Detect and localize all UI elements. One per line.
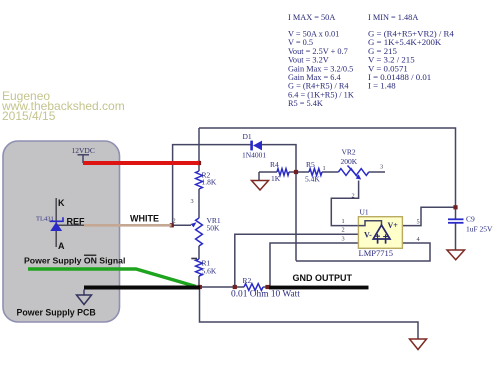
- wire op-amp pin 5 to C9: [403, 207, 456, 225]
- svg-text:A: A: [58, 241, 65, 251]
- svg-text:1uF 25V: 1uF 25V: [466, 225, 493, 234]
- resistor R4 1K: [277, 169, 289, 176]
- svg-text:K: K: [58, 198, 65, 208]
- svg-text:U1: U1: [360, 208, 369, 217]
- wire bottom rail: [199, 286, 244, 288]
- svg-text:Power Supply ON Signal: Power Supply ON Signal: [24, 256, 125, 266]
- svg-text:1K: 1K: [271, 174, 281, 183]
- op-amp U1 LMP7715: [358, 217, 402, 249]
- svg-text:REF: REF: [67, 217, 86, 227]
- svg-text:R2: R2: [243, 276, 252, 285]
- tan WHITE wire: [56, 224, 84, 226]
- wire left vertical trunk: [198, 128, 200, 171]
- svg-text:1: 1: [323, 165, 326, 172]
- pin labels: [173, 164, 421, 244]
- potentiometer VR2 200K: [338, 169, 368, 176]
- svg-text:I MAX = 50A: I MAX = 50A: [288, 13, 335, 22]
- label ON overline: [84, 254, 96, 256]
- svg-text:0.01 Ohm 10 Watt: 0.01 Ohm 10 Watt: [231, 290, 300, 300]
- wire D1 branch: [173, 145, 251, 226]
- svg-text:12VDC: 12VDC: [72, 146, 95, 155]
- resistor R1 5.6K: [196, 259, 203, 276]
- wire VR2 wiper to op-amp pin 1: [331, 181, 358, 226]
- junction node shunt left: [198, 285, 202, 289]
- svg-text:2: 2: [352, 193, 355, 200]
- potentiometer VR1 50K: [196, 218, 203, 246]
- svg-text:3: 3: [191, 198, 194, 205]
- svg-text:I MIN = 1.48A: I MIN = 1.48A: [368, 13, 418, 22]
- svg-text:5.4K: 5.4K: [305, 175, 320, 184]
- wire C9 lower stub: [455, 223, 457, 251]
- svg-text:G = (R4+R5) / R4: G = (R4+R5) / R4: [288, 82, 349, 91]
- wire bottom ground run: [200, 287, 419, 339]
- capacitor C9 1uF 25V: [448, 218, 464, 220]
- svg-text:WHITE: WHITE: [130, 214, 159, 224]
- ground at R4: [252, 181, 269, 191]
- svg-text:R5 = 5.4K: R5 = 5.4K: [288, 99, 323, 108]
- svg-text:1: 1: [342, 218, 345, 225]
- watermark text Eugeneo: [1, 89, 125, 123]
- junction node V+ supply: [453, 205, 457, 209]
- svg-text:Gain Max = 3.2/0.5: Gain Max = 3.2/0.5: [288, 64, 353, 73]
- svg-text:200K: 200K: [341, 157, 358, 166]
- junction node GND output: [265, 285, 269, 289]
- svg-text:VR2: VR2: [342, 148, 356, 157]
- svg-text:5.6K: 5.6K: [202, 267, 217, 276]
- red 12V wire: [82, 155, 84, 163]
- wire R4 ground stub: [258, 172, 260, 180]
- svg-text:3: 3: [380, 164, 383, 171]
- svg-text:TL431: TL431: [36, 216, 54, 223]
- svg-text:Gain Max = 6.4: Gain Max = 6.4: [288, 73, 341, 82]
- svg-text:Vout = 3.2V: Vout = 3.2V: [288, 56, 329, 65]
- PSU ground: [83, 290, 85, 296]
- svg-text:3: 3: [342, 236, 345, 243]
- resistor R2 shunt 0.01 Ohm: [244, 284, 263, 291]
- svg-text:LMP7715: LMP7715: [359, 248, 393, 258]
- svg-text:V = 50A x 0.01: V = 50A x 0.01: [288, 30, 339, 39]
- junction node R4 R5 feedback: [294, 170, 298, 174]
- svg-text:V-: V-: [364, 231, 372, 240]
- wire R4 R5 line: [259, 171, 277, 173]
- wire op-amp pin 3: [270, 243, 358, 288]
- svg-text:R5: R5: [306, 160, 315, 169]
- ground bottom right: [410, 339, 427, 350]
- calculation notes text: [288, 13, 418, 108]
- svg-text:GND OUTPUT: GND OUTPUT: [293, 273, 353, 283]
- svg-text:1.8K: 1.8K: [202, 178, 217, 187]
- resistor R5 5.4K: [309, 169, 322, 176]
- svg-text:R4: R4: [270, 160, 279, 169]
- svg-text:1N4001: 1N4001: [242, 151, 266, 160]
- svg-text:5: 5: [417, 219, 420, 226]
- svg-text:Power Supply PCB: Power Supply PCB: [17, 308, 96, 318]
- svg-text:4: 4: [417, 236, 421, 243]
- TL431 shunt regulator: [50, 198, 64, 247]
- green ON signal wire: [28, 269, 196, 287]
- junction node 12V rail: [197, 161, 201, 165]
- resistor R2 1.8K: [196, 171, 203, 189]
- svg-text:C9: C9: [466, 215, 475, 224]
- black GND OUTPUT bar: [269, 286, 369, 290]
- wire op-amp pin 2: [235, 234, 359, 288]
- VR1 pin 1 tick: [191, 258, 197, 260]
- diode D1 1N4001: [250, 141, 253, 151]
- svg-text:V = 0.5: V = 0.5: [288, 38, 313, 47]
- svg-text:D1: D1: [243, 132, 252, 141]
- svg-text:Vout = 2.5V + 0.7: Vout = 2.5V + 0.7: [288, 47, 348, 56]
- ground at C9: [447, 250, 465, 260]
- junction node REF wiper: [170, 223, 174, 227]
- wire top rail: [199, 128, 456, 219]
- svg-text:I = 1.48: I = 1.48: [368, 81, 396, 91]
- wire op-amp pin 4 loop: [296, 243, 430, 261]
- svg-text:V+: V+: [388, 221, 399, 230]
- junction node V- pin2: [233, 285, 237, 289]
- svg-text:2: 2: [342, 227, 345, 234]
- svg-text:50K: 50K: [207, 224, 221, 233]
- Power Supply PCB box: [3, 141, 120, 322]
- labels in PCB box: [58, 198, 353, 283]
- svg-text:2015/4/15: 2015/4/15: [2, 109, 56, 123]
- svg-text:6.4 = (1K+R5) / 1K: 6.4 = (1K+R5) / 1K: [288, 90, 354, 99]
- black PSU wire: [84, 286, 200, 290]
